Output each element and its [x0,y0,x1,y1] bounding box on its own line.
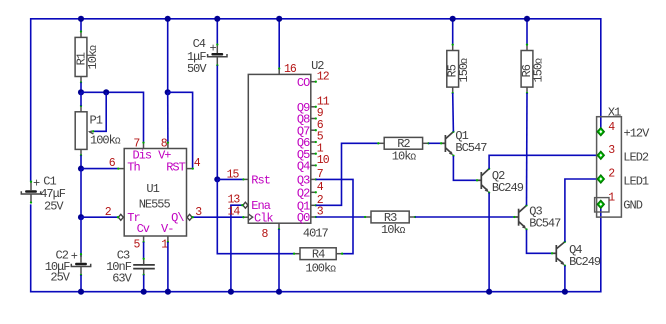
capacitor C4 symbol [211,53,223,56]
svg-text:14: 14 [227,206,240,219]
resistor R2 body [384,137,422,149]
4017 pin Q7 stub [311,129,316,131]
potentiometer P1 wiper arrow [89,132,93,134]
wire +12V top rail (left branch to C1, right branch to X1 pin 4) [31,19,601,181]
transistor Q4 symbol [552,242,565,264]
4017 pin 15 stub [243,178,248,180]
4017 pin Q3 stub [311,178,316,180]
capacitor C3 symbol [133,264,155,266]
wire P1 wiper [93,92,106,131]
svg-text:V-: V- [161,222,173,236]
junction GND rail / 555 V- [165,289,171,295]
wire Th node to 555 pin 6 [81,168,118,170]
svg-text:LED1: LED1 [623,175,649,189]
svg-text:RST: RST [166,160,185,174]
connector X1 body [597,117,622,217]
wire Rst node down to R4 left [217,179,294,253]
svg-text:Q2: Q2 [297,187,310,201]
wire C3 to GND rail [143,275,145,292]
wire C4 to Rst node [216,66,218,180]
wire Q4 collector to X1 LED1 [565,179,601,242]
wire 555 V- to GND rail [167,242,169,292]
wire Q2 emitter to GND rail [488,193,490,292]
svg-text:100kΩ: 100kΩ [305,261,336,275]
svg-text:BC547: BC547 [455,141,487,155]
IC U2 4017 body [248,74,310,223]
wire GND bottom rail (left branch from C1, right branch to X1 pin 1) [31,204,601,291]
pin diamond 555 pin 3 Q [187,214,192,220]
svg-text:10kΩ: 10kΩ [381,223,406,237]
capacitor C1 symbol [25,190,37,193]
wire Q1 emitter to Q2 base [453,156,476,180]
wire top rail to R1 [80,19,82,32]
svg-text:+: + [33,176,40,190]
svg-text:150Ω: 150Ω [457,58,471,83]
wire Rst node to 4017 pin 15 [217,178,243,180]
555 pin 8 stub [167,143,169,149]
svg-text:+: + [210,42,217,56]
wire 4017 pin 8 to GND rail [278,229,280,292]
555 pin 6 stub [118,168,124,170]
4017 pin Q2 stub [311,191,316,193]
wire P1 bottom to Th node [80,155,82,168]
junction GND rail / Q2 emitter [486,289,492,295]
junction top rail / R1 [78,16,84,22]
555 pin 4 stub [187,168,193,170]
wire Q3 emitter to Q4 base [527,230,552,254]
svg-text:100kΩ: 100kΩ [90,134,121,148]
junction Dis node / P1 wiper [103,89,109,95]
wire Tr node down to C2 [80,217,82,257]
svg-text:R4: R4 [312,248,325,262]
svg-text:Q0: Q0 [297,211,310,225]
junction GND rail / C2 [78,289,84,295]
svg-text:+: + [71,249,78,263]
svg-text:15: 15 [227,168,240,181]
svg-text:7: 7 [133,137,139,150]
svg-text:13: 13 [227,194,240,207]
svg-text:10kΩ: 10kΩ [86,45,100,70]
4017 pin Q6 stub [311,141,316,143]
connector pin dot X1 pin 3 [597,151,604,159]
4017 pin 16 stub [278,69,280,75]
wire V+ node to 555 pin 4 RST [168,92,193,168]
junction Dis node at R1/P1 [78,89,84,95]
wire top rail to V+ node [167,19,169,93]
wire 4017 Q1 to R2 [316,143,379,205]
svg-text:U2: U2 [311,59,324,73]
transistor Q3 symbol [514,206,526,228]
wire Q4 emitter to GND rail [564,266,566,292]
resistor R5 body [447,51,459,88]
wire top rail to C4 [216,19,218,45]
svg-text:GND: GND [623,198,642,212]
junction top rail / R5 [450,16,456,22]
555 pin 7 stub [143,143,145,149]
svg-text:Rst: Rst [251,174,270,188]
svg-text:Cv: Cv [137,222,150,236]
op-amp-style IC U1 NE555 body [124,149,186,237]
4017 pin Q1 stub [311,204,316,206]
junction top rail / C4 [214,16,220,22]
junction Rst node [214,176,220,182]
555 pin 5 stub [143,236,145,242]
svg-text:P1: P1 [90,114,103,128]
junction GND rail / Q4 emitter [562,289,568,295]
svg-text:BC249: BC249 [569,255,601,269]
4017 pin Q9 stub [311,106,316,108]
wire 4017 Ena to GND rail [231,205,242,292]
4017 pin Q8 stub [311,118,316,120]
junction top rail / 4017 pin 16 [276,16,282,22]
resistor R1 body [75,37,87,76]
svg-text:25V: 25V [44,200,64,214]
wire 4017 Q0 to R3 [316,216,365,218]
4017 pin 14 stub [243,216,248,218]
4017 pin 16 wire [278,19,280,69]
svg-text:Q3: Q3 [297,174,310,188]
junction top rail / V+ column [165,16,171,22]
wire C2 to GND rail [80,275,82,292]
svg-text:U1: U1 [146,182,159,196]
capacitor C2 symbol [75,263,87,266]
potentiometer P1 body [75,112,87,150]
wire top rail to R5 [452,19,454,45]
svg-text:BC547: BC547 [529,216,561,230]
svg-text:63V: 63V [112,272,132,286]
svg-text:Th: Th [127,160,140,174]
svg-text:16: 16 [284,63,297,76]
connector pin dot X1 pin 2 [597,175,604,183]
wire R3 to Q3 base [415,216,514,218]
svg-text:10: 10 [317,154,330,167]
wire Dis node to P1 top [80,92,82,106]
wire top rail to R6 [526,19,528,45]
junction V+ node [165,89,171,95]
4017 Clk wedge [248,214,252,221]
wire 4017 Q3 to R4 right [316,179,353,253]
wire Dis node to 555 pin 7 [81,92,144,142]
junction Th node [78,166,84,172]
svg-text:LED2: LED2 [623,151,649,165]
resistor R3 body [371,211,409,223]
wire Q2 collector to X1 LED2 [489,155,601,168]
svg-text:Clk: Clk [254,211,273,225]
junction GND rail / C3 [141,289,147,295]
resistor R4 body [300,248,336,260]
wire 555 Q to 4017 Clk [193,216,244,218]
wire R5 to Q1 collector [452,93,455,132]
svg-text:Q4: Q4 [297,160,310,174]
555 pin 1 stub [167,236,169,242]
wire R2 to Q1 base [429,142,442,144]
wire 555 Cv to C3 [143,242,145,259]
connector X1 pin 1 frame [595,198,609,212]
4017 pin Q0 stub [311,216,316,218]
svg-text:25V: 25V [50,271,70,285]
svg-text:CO: CO [297,76,310,90]
junction Tr node [78,214,84,220]
wire Th node to Tr node [80,169,82,218]
svg-text:150Ω: 150Ω [531,58,545,83]
svg-text:+12V: +12V [624,127,651,141]
junction top rail / R6 [524,16,530,22]
pin diamond 4017 pin 13 Ena diamond [243,202,248,208]
svg-text:NE555: NE555 [139,197,171,211]
pin diamond 555 pin 2 Tr [118,214,123,220]
4017 pin CO stub [311,81,316,83]
svg-text:50V: 50V [187,62,207,76]
connector pin dot X1 pin 4 [597,128,604,136]
wire R6 to Q3 collector [526,93,529,205]
svg-text:4017: 4017 [303,227,329,241]
wire R1 to Dis node [80,82,82,92]
resistor R6 body [521,51,533,88]
wire Tr node to 555 pin 2 [81,216,118,218]
svg-text:BC249: BC249 [492,181,524,195]
4017 pin Q5 stub [311,153,316,155]
transistor Q1 symbol [441,132,453,154]
junction GND rail / Ena wire [228,289,234,295]
connector pin dot X1 pin 1 [597,200,604,208]
4017 pin 8 stub [278,223,280,229]
svg-text:10kΩ: 10kΩ [392,150,417,164]
transistor Q2 symbol [477,169,489,191]
junction GND rail / 4017 pin 8 [276,289,282,295]
wire V+ node to 555 pin 8 [167,92,169,142]
svg-text:X1: X1 [608,106,621,120]
4017 pin Q4 stub [311,164,316,166]
